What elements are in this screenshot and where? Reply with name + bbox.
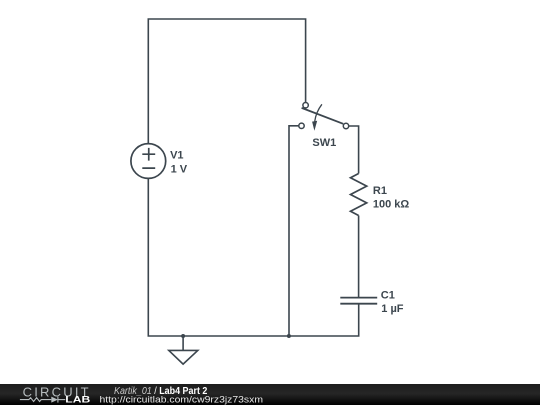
svg-text:LAB: LAB xyxy=(65,394,90,405)
svg-text:1 V: 1 V xyxy=(171,164,188,176)
svg-text:R1: R1 xyxy=(373,185,387,197)
svg-text:V1: V1 xyxy=(170,150,183,162)
svg-text:100 kΩ: 100 kΩ xyxy=(373,199,410,211)
svg-text:SW1: SW1 xyxy=(312,137,336,149)
svg-text:1 µF: 1 µF xyxy=(381,303,404,315)
svg-text:http://circuitlab.com/cw9rz3jz: http://circuitlab.com/cw9rz3jz73sxm xyxy=(100,395,264,405)
svg-text:C1: C1 xyxy=(381,289,395,301)
